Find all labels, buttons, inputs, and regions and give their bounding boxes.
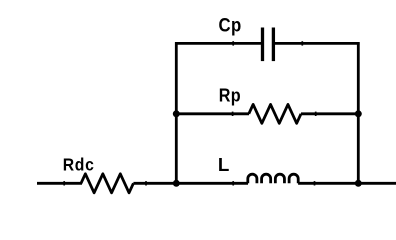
wire: Rdc to node A [133,182,176,185]
pin tick: Rp left pin [232,112,234,116]
junction node A (bottom left) [173,180,180,187]
resistor Rp [249,104,301,123]
wire: input lead (left of Rdc) [37,182,82,185]
pin tick: L right pin [314,181,316,185]
wire: top branch left (to Cp) [175,42,261,45]
wire: middle branch left (node to Rp) [176,112,249,115]
resistor Rdc [81,174,133,193]
pin tick: Cp left pin [232,41,234,45]
wire: right vertical riser [357,42,360,183]
pin tick: Rp right pin [315,112,317,116]
junction node (right riser to Rp branch) [355,110,362,117]
wire: left vertical riser [175,42,178,183]
capacitor Cp left plate [261,28,264,62]
junction node (left riser to Rp branch) [173,110,180,117]
pin tick: Rdc left pin [63,181,65,185]
wire: middle branch right (Rp to node) [301,112,358,115]
junction node B (bottom right) [355,180,362,187]
pin tick: Cp right pin [301,41,303,45]
wire: node A to inductor L [176,182,248,185]
svg-text:L: L [218,154,229,175]
pin tick: L left pin [232,181,234,185]
capacitor Cp right plate [272,28,275,62]
inductor L (4 coil loops) [248,174,298,183]
pin tick: Rdc right pin [145,181,147,185]
svg-text:Rp: Rp [219,84,241,105]
svg-text:Rdc: Rdc [63,154,95,174]
wire: inductor L to node B [298,182,358,185]
svg-text:Cp: Cp [219,14,242,35]
wire: top branch right (Cp to right riser) [275,42,360,45]
wire: output lead (right of node B) [358,182,396,185]
